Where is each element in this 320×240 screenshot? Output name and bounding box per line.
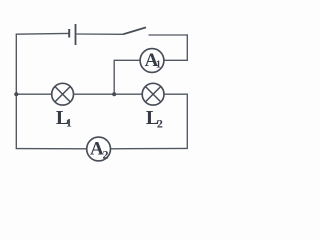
lamp L2 circle [142, 83, 164, 105]
wire left vertical side [15, 34, 17, 148]
wire right vertical down to ammeter A1 [164, 34, 187, 60]
wire L1 to node junction [74, 93, 115, 95]
lamp L2 cross [145, 87, 160, 102]
svg-text:2: 2 [103, 147, 109, 161]
node junction dot (A1 branch joins lamps row) [112, 92, 116, 96]
wire node to lamp L2 [114, 93, 142, 95]
node junction dot on left vertical [14, 92, 18, 96]
ammeter A1 circle [140, 49, 164, 73]
wire A2 to bottom right corner [111, 147, 188, 149]
wire battery to switch [76, 33, 123, 35]
battery B1 short plate [68, 29, 70, 38]
battery B1 long plate [75, 24, 77, 45]
wire middle row left segment [16, 93, 52, 95]
switch S1 lever (open) [123, 27, 146, 34]
svg-text:1: 1 [66, 116, 72, 130]
svg-text:2: 2 [157, 117, 163, 131]
wire L2 to right side [164, 94, 187, 148]
wire A1 left then down to node [114, 60, 140, 94]
lamp L1 circle [52, 83, 74, 105]
lamp L1 cross [55, 87, 70, 102]
svg-text:1: 1 [156, 59, 161, 70]
wire bottom left segment [16, 148, 87, 150]
wire switch to top-right corner [149, 34, 188, 36]
wire top-left horizontal [16, 32, 69, 35]
ammeter A2 circle [87, 137, 111, 161]
